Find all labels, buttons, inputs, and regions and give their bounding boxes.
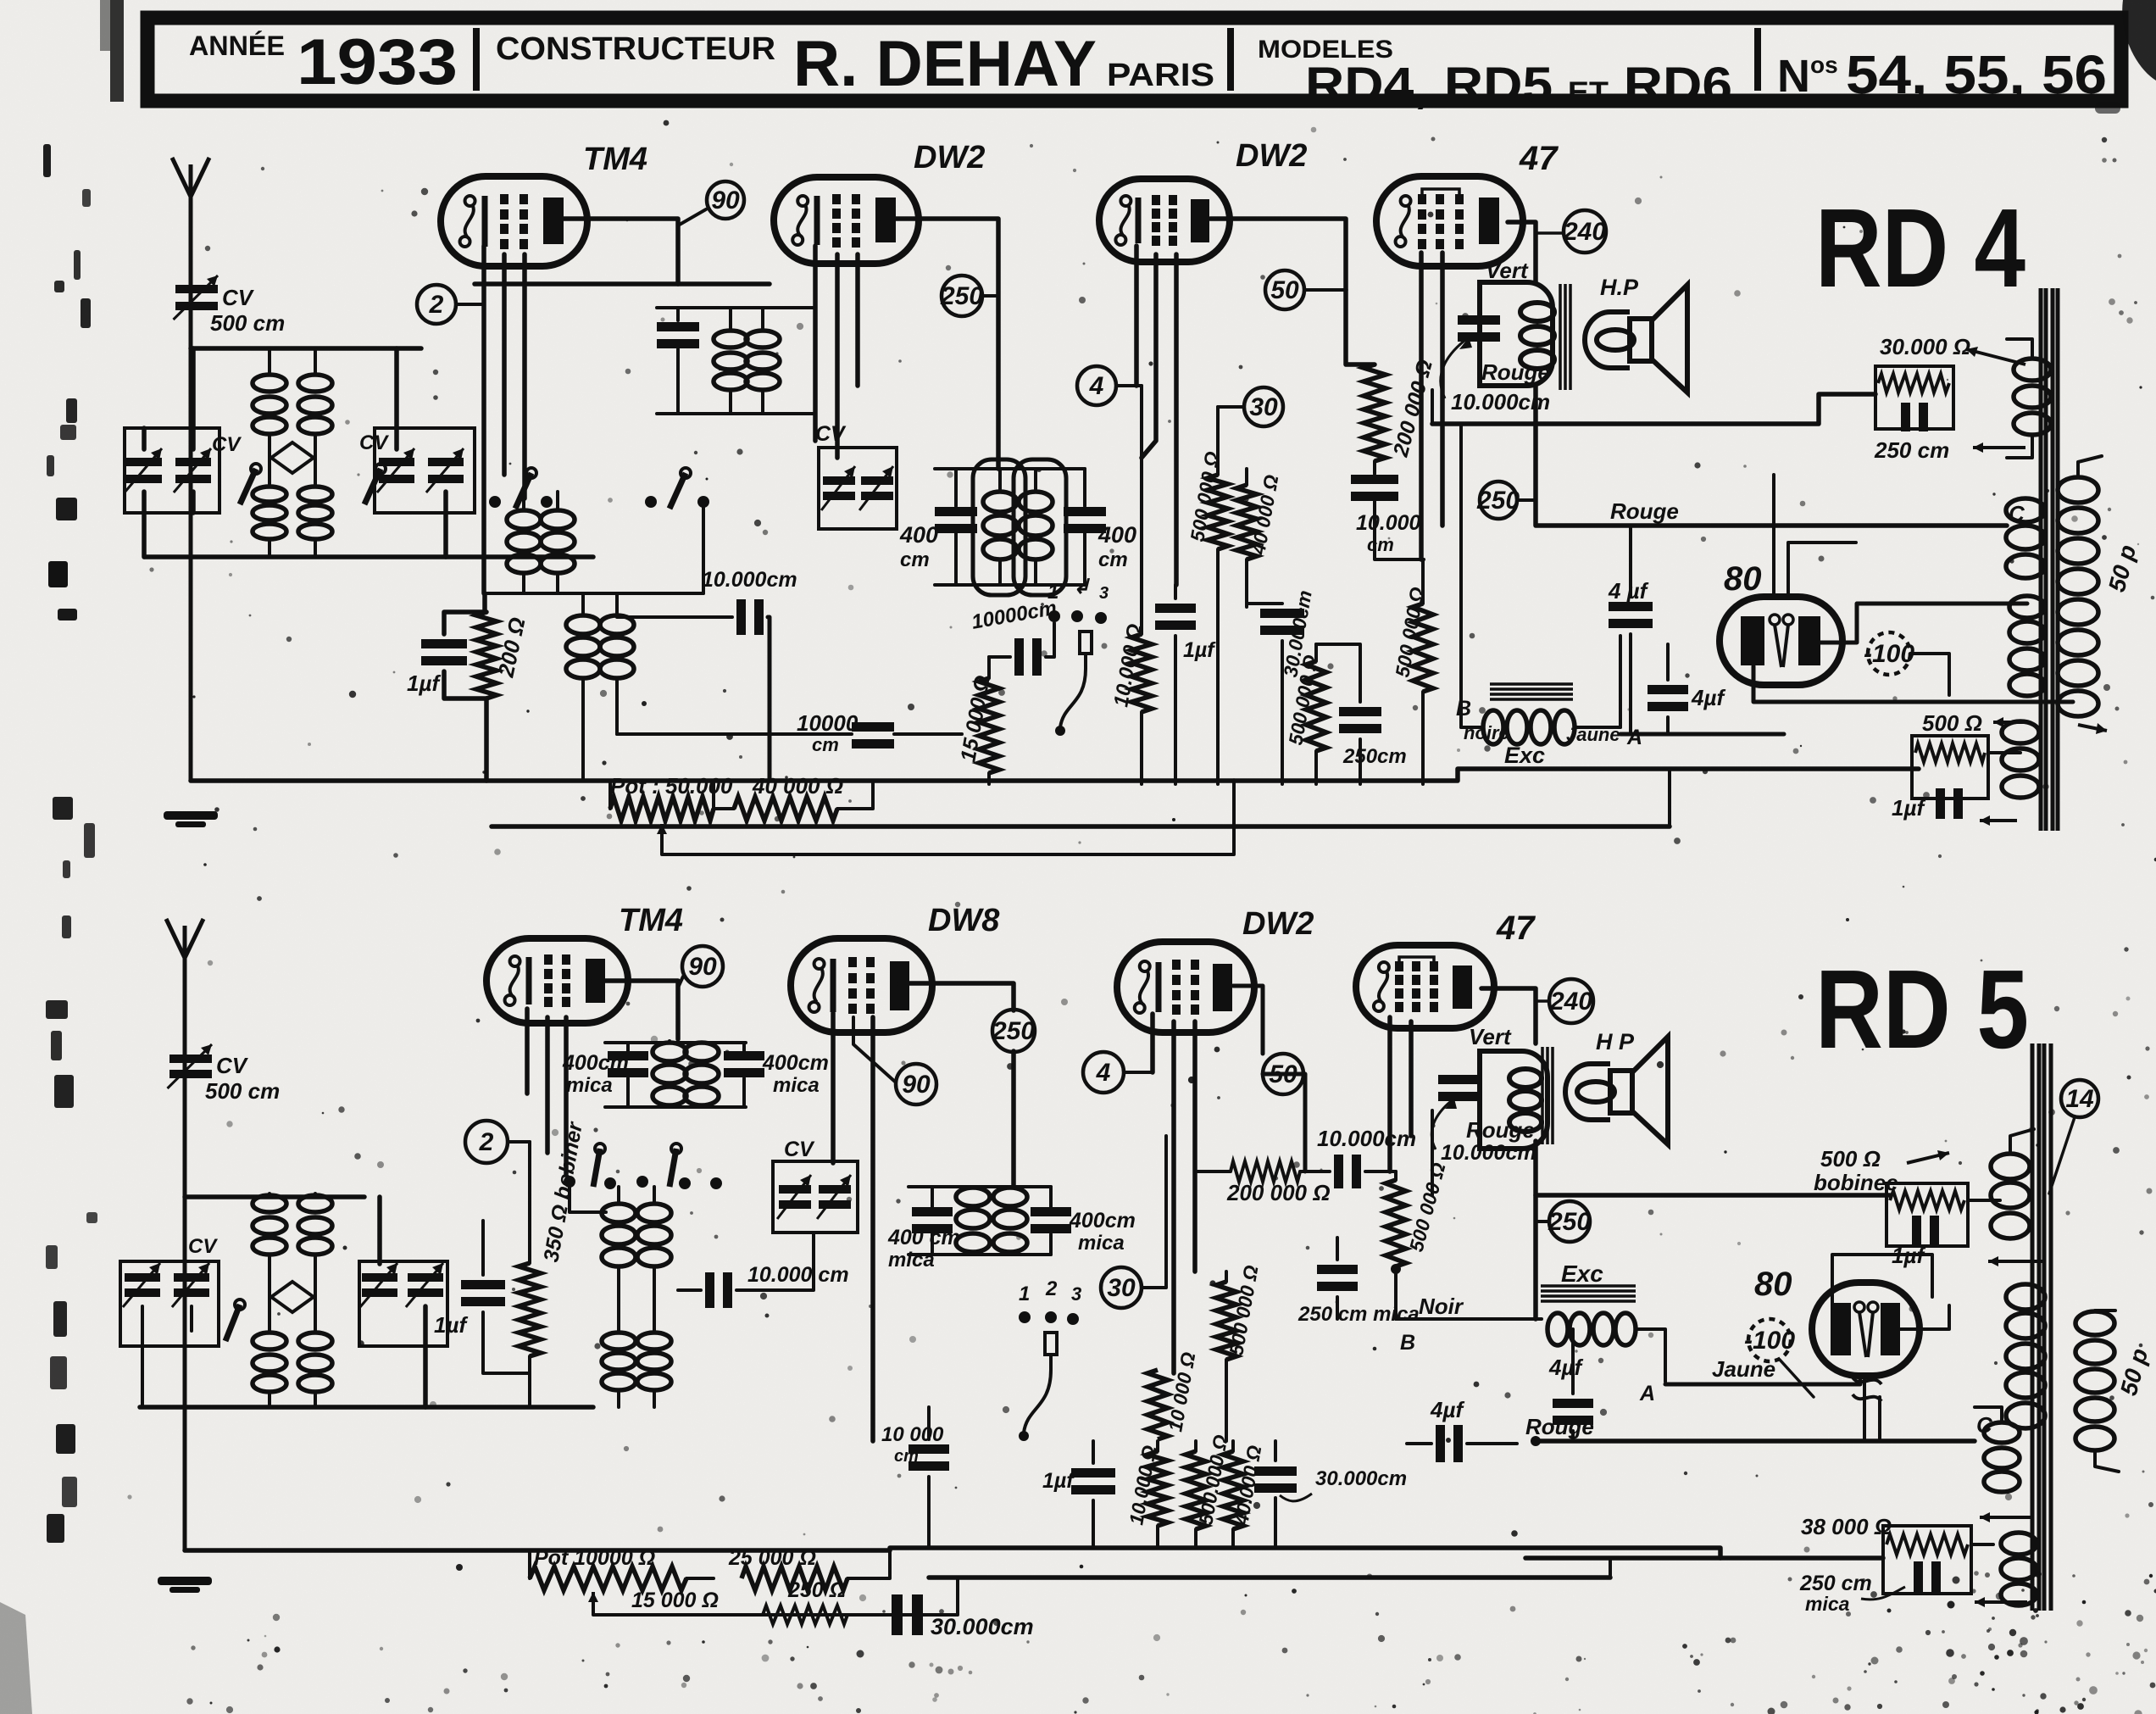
capacitor 250cm RC RD4 — [1901, 403, 1910, 431]
IF transformer 2 RD4 capR — [1064, 507, 1106, 516]
contacts 123 RD5 — [1019, 1311, 1031, 1323]
wire TM4 cathode RD4 — [481, 246, 486, 593]
arrow RC top RD4 — [1966, 349, 2025, 365]
terminal circle 30 RD4 — [1244, 387, 1283, 426]
variable capacitor gang D RD4 — [428, 458, 464, 466]
capacitor 10000cm coup RD5 — [1334, 1155, 1343, 1188]
wire DW2b leads RD4 — [1134, 246, 1139, 386]
box tuning gang left RD5 — [120, 1261, 219, 1346]
tube DW2 RD5 — [1117, 942, 1254, 1032]
wire gangC leads RD4 — [394, 348, 399, 449]
wire osc cap RD5 — [678, 1288, 701, 1292]
wire gangA leads RD4 — [142, 428, 147, 449]
capacitor 30000cm out RD5 — [892, 1594, 903, 1635]
wire 4uFa RD5 — [1571, 1329, 1575, 1394]
wire antenna top interconnect RD4 — [191, 346, 421, 351]
tube 80 RD4 — [1720, 597, 1842, 685]
tube TM4 RD5 — [486, 938, 628, 1023]
resistor 350ohm RD5 — [519, 1263, 541, 1356]
wire 500000b RD5 — [1394, 1171, 1398, 1180]
wire 4uFb RD5 — [1407, 1442, 1431, 1445]
wire det cap RD4 — [989, 655, 1010, 659]
bus B+ RD4 — [492, 824, 1670, 829]
capacitor 30000cm RD4 — [1260, 609, 1304, 618]
oscillator contacts RD5 — [564, 1176, 575, 1188]
power transformer secondary RD4 — [2058, 477, 2098, 503]
capacitor 10000cm output RD4 — [1458, 315, 1500, 325]
variable capacitor gangB RD5 — [174, 1273, 209, 1282]
wire jaune RD5 — [1665, 1380, 1860, 1384]
capacitor 10000cm bias RD4 — [852, 722, 894, 732]
variable capacitor gangD RD5 — [408, 1273, 443, 1282]
wire det RD5 — [1092, 1441, 1095, 1463]
title block frame — [147, 18, 2121, 101]
wire frontend bottom RD5 — [140, 1405, 593, 1410]
resistor 250ohm RD5 — [763, 1605, 847, 1624]
jack RD4 — [1080, 632, 1092, 654]
wire exc RD5 — [1637, 1329, 1665, 1382]
bus B+2 RD5 — [929, 1575, 1610, 1580]
arrow 38000 bot RD5 — [1975, 1600, 2027, 1604]
wire DW2a grid RD4 — [835, 254, 840, 458]
IF1 RD5 capR — [724, 1051, 764, 1060]
wire 80 filament RD5 — [1853, 1377, 1881, 1401]
power transformer W2 RD4 — [2006, 498, 2045, 522]
terminal circle 14 RD5 — [2061, 1080, 2098, 1117]
resistor 500000b RD4 — [1306, 661, 1326, 751]
power W3 C RD5 — [1984, 1422, 2020, 1443]
arrow 500 top RD5 — [1907, 1153, 1949, 1163]
IF transformer 1 RD4 coils — [714, 331, 747, 348]
box tuning gang left RD4 — [125, 428, 219, 513]
wire circle50 RD4 — [1304, 288, 1346, 292]
wire 500 RD4 — [1988, 751, 2020, 754]
antenna RD4 — [189, 170, 193, 781]
IF1 RD5 capL — [608, 1051, 648, 1060]
wire 1uF RD5 — [481, 1221, 485, 1275]
laminations output RD5 — [1541, 1047, 1544, 1144]
capacitor 1uF det RD5 — [1071, 1468, 1115, 1477]
wire 250cm RD4 — [1316, 644, 1360, 702]
capacitor 1uF RD4r — [1936, 788, 1945, 819]
wire 500000c RD4 — [1421, 559, 1425, 604]
wire Bwire RD4 — [1459, 424, 1463, 727]
resistor 10000ohm det RD4 — [1131, 634, 1152, 712]
wire 250cm RD5 — [1336, 1238, 1339, 1260]
capacitor 250cm mica RD5r — [1914, 1561, 1923, 1595]
wire -100 RD4 — [1910, 654, 1949, 695]
resistor 500ohm RD5 box — [1886, 1183, 1968, 1246]
output transformer RD4 coil — [1520, 303, 1554, 321]
IF transformer 2 RD4 coils — [983, 492, 1017, 512]
wire 30000cm RD4 — [1247, 602, 1282, 605]
wire 80 right anode RD4 — [1820, 604, 2027, 643]
speaker HP RD4 — [1585, 312, 1630, 368]
capacitor 10000cm det RD4 — [1014, 638, 1024, 676]
wire 47 grids RD4 — [1419, 253, 1424, 559]
wire screen bus RD4 — [1432, 394, 1875, 424]
switch S3 RD4 — [526, 468, 536, 478]
terminal circle 250 RD4 — [942, 275, 982, 316]
switch S1 RD5 — [235, 1299, 245, 1310]
wire coup RD5 — [1195, 1170, 1231, 1173]
wire 80 left anode RD4 — [1753, 666, 2073, 702]
power transformer core RD5 — [2031, 1043, 2035, 1611]
variable capacitor gangC RD5 — [362, 1273, 397, 1282]
wire IF1 RD4 — [676, 308, 680, 320]
wire 1uF-200 RD4 — [444, 612, 486, 634]
IF1 RD5 coils — [653, 1043, 686, 1061]
wire TM4 cathode RD5 — [525, 1009, 530, 1094]
arrow RC bot RD4 — [1973, 446, 2025, 449]
arrow 38000 top RD5 — [1980, 1516, 2034, 1519]
wire 40000 RD4 — [1245, 469, 1248, 485]
contacts 1 2 3 RD4 — [1048, 610, 1060, 622]
wire TM4 grid2 RD4 — [522, 254, 527, 498]
bus ground RD5 — [185, 1548, 890, 1553]
wire 80 top leads RD4 — [1772, 475, 1775, 597]
IF2 RD5 capR — [1031, 1207, 1071, 1216]
terminal circle 240 RD5 — [1549, 979, 1593, 1023]
oscillator coils RD5 — [602, 1204, 636, 1222]
power transformer W4 RD4 — [2002, 721, 2039, 743]
wire gang leads RD5 — [141, 1306, 144, 1407]
resistor 38000 RD5 — [1886, 1534, 1968, 1555]
wire rouge bus RD4 — [1536, 424, 2007, 526]
tube 47 RD4 — [1376, 176, 1523, 266]
wire DW8 grids RD5 — [831, 1013, 836, 1163]
capacitor 10000cm screen RD4 — [1351, 475, 1398, 484]
capacitor 10000cm output RD5 — [1438, 1075, 1481, 1084]
capacitor 250cm mica RD5 — [1317, 1265, 1358, 1274]
wire output bottom RD4 — [1431, 390, 1434, 424]
variable capacitor CV 500cm RD4 — [175, 285, 218, 293]
wire IF2 caps RD5 — [931, 1187, 934, 1207]
terminal circle 90b RD5 — [896, 1064, 936, 1105]
variable capacitor gang A RD4 — [126, 458, 162, 466]
wire DW2b anode RD4 — [1210, 219, 1346, 290]
wire W1 bottom RD4 — [2007, 437, 2032, 458]
resistor 30000 RC RD4 box — [1875, 366, 1953, 429]
resistor 200ohm RD4 — [476, 612, 497, 698]
wire IF2 caps RD4 — [954, 469, 958, 506]
wire osc cap RD4 — [617, 615, 732, 619]
wire 15000 RD4 — [987, 657, 991, 678]
tube 47 RD5 — [1356, 945, 1494, 1028]
terminal circle 2 RD4 — [417, 285, 456, 324]
tube DW2b RD4 — [1099, 179, 1230, 262]
resistor 500000c RD4 — [1413, 604, 1433, 692]
IF transformer 1 RD4 cap — [657, 322, 699, 331]
switch S4 RD5 — [671, 1144, 681, 1154]
antenna RD5 — [183, 931, 187, 1550]
terminal circle 250b RD5 — [1549, 1201, 1590, 1242]
terminal circle -100 RD4 — [1868, 632, 1910, 675]
CV trimmer RD5 box — [773, 1161, 858, 1233]
capacitor 10000cm osc RD4 — [736, 599, 746, 635]
IF2 RD5 capL — [912, 1207, 953, 1216]
capacitor 30000cm RD5 — [1254, 1466, 1297, 1476]
resistor 500000c RD5 — [1216, 1282, 1236, 1360]
wire TM4 grid1 RD4 — [502, 254, 507, 475]
speaker HP RD5 — [1565, 1064, 1610, 1120]
IF2 RD5 coils — [956, 1188, 990, 1206]
wire secondary RD5 — [2095, 1453, 2119, 1472]
wire 47 anode RD5 — [1481, 988, 1536, 1043]
wire circle4 RD4 — [1116, 384, 1142, 387]
bus B+1 RD5 — [890, 1548, 1720, 1558]
wire 47 grid RD5 — [1387, 1017, 1392, 1171]
capacitor 1uF RD5 — [461, 1280, 505, 1289]
wire circle2 RD4 — [456, 303, 484, 306]
wire noir RD5 — [1396, 1317, 1542, 1321]
variable capacitor gang C RD4 — [379, 458, 414, 466]
wire IF1 caps RD5 — [626, 1043, 630, 1051]
terminal circle 250 RD5 — [992, 1010, 1035, 1052]
power W1 RD5 — [1991, 1154, 2030, 1179]
wire DW2a anode down RD4 — [961, 733, 963, 735]
power W4 RD5 — [2001, 1533, 2037, 1555]
pot 50000 RD4 — [610, 797, 714, 821]
terminal circle 4 RD4 — [1077, 366, 1116, 405]
wire 10000det RD4 — [1140, 386, 1143, 634]
wire secondary ends RD4 — [2078, 456, 2102, 475]
antenna coil RD5 — [253, 1195, 286, 1212]
wire chain RD5 — [847, 1548, 890, 1578]
resistor 500ohm RD4 — [1915, 743, 1985, 762]
capacitor 1uF RD5r — [1912, 1216, 1921, 1246]
wire circle250b RD5 — [1533, 1141, 1538, 1319]
wire DW2a anode RD4 — [881, 219, 998, 469]
resistor 500000a RD4 — [1208, 475, 1228, 549]
wire DW8 anode RD5 — [899, 983, 1014, 1010]
oscillator coils lower RD4 — [566, 615, 600, 634]
terminal circle 2 RD5 — [465, 1121, 508, 1163]
terminal circle -100 RD5 — [1748, 1319, 1791, 1361]
capacitor 10000cm osc RD5 — [705, 1272, 714, 1308]
field coil Exc RD4 — [1490, 682, 1573, 686]
tube 80 RD5 — [1812, 1283, 1920, 1376]
tube DW8 RD5 — [791, 938, 932, 1032]
arrow 500 bot RD5 — [1988, 1260, 2042, 1263]
arrow 500 top RD4 — [1993, 721, 2025, 724]
wire TM4 anode RD5 — [593, 981, 678, 1039]
antenna coil T1 RD4 — [253, 375, 286, 392]
terminal circle 50 RD4 — [1265, 270, 1304, 309]
wire screen drop RD4 — [1346, 290, 1375, 365]
wire 240 link RD4 — [1536, 231, 1564, 235]
wire 350 RD5 — [528, 1142, 531, 1263]
switch S3 RD5 — [595, 1144, 605, 1154]
capacitor 250cm RD4 — [1339, 707, 1381, 716]
CV trimmer RD4 caps — [823, 476, 855, 485]
box tuning gang mid RD4 — [375, 428, 475, 513]
resistor 40000 RD4 — [1236, 485, 1257, 559]
power transformer core RD4 — [2039, 288, 2043, 831]
wire 200000 RD4 — [1373, 461, 1376, 474]
resistor 200000 RD4 — [1364, 365, 1386, 461]
resistor 200000 RD5 — [1231, 1161, 1300, 1182]
terminal circle 240 RD4 — [1564, 210, 1606, 253]
capacitor 10000cm det RD5 — [909, 1444, 949, 1454]
wire circle4 RD5 — [1124, 1071, 1153, 1074]
wire bias RD4 — [617, 732, 852, 736]
terminal circle 4 RD5 — [1083, 1052, 1124, 1093]
oscillator coils upper RD4 — [507, 510, 541, 529]
wire circle250r RD4 — [1517, 498, 1536, 502]
wire DW2a cathode RD4 — [813, 246, 818, 441]
terminal circle 30 RD5 — [1101, 1267, 1142, 1308]
wire 38000 RD5 — [1525, 1555, 1883, 1561]
bus mid RD4 — [1234, 769, 1919, 781]
tube TM4 RD4 — [441, 176, 587, 266]
switch S2 RD4 — [375, 464, 386, 474]
terminal circle 90 RD4 — [707, 181, 744, 219]
output transformer RD5 coil — [1509, 1069, 1542, 1088]
ground RD5 — [158, 1577, 212, 1585]
wire pot RD5 — [528, 1550, 531, 1578]
wire left col RD5 — [889, 1407, 891, 1550]
IF transformer 2 RD4 cans — [973, 459, 1025, 595]
capacitor 1uF det RD4 — [1155, 604, 1196, 613]
resistor 500000d RD5 — [1395, 1177, 1397, 1179]
wire 30000 RD5 — [847, 1613, 888, 1617]
resistor 15000 RD4 — [979, 678, 999, 773]
CV trimmer RD5 caps — [779, 1185, 811, 1194]
wire circle14 RD5 — [2049, 1117, 2075, 1194]
wire 1uF det RD4 — [1174, 585, 1177, 598]
wire jaune row RD4 — [1619, 636, 1622, 727]
capacitor 4uF a RD5 — [1553, 1399, 1593, 1408]
wire 47 anode RD4 — [1508, 222, 1536, 282]
wire circle30 RD4 — [1218, 405, 1244, 409]
resistor 10000a RD5 — [1147, 1451, 1168, 1526]
terminal circle 90 RD5 — [682, 946, 723, 987]
resistor 30000 RD4 — [1878, 374, 1949, 392]
wire 4uFb RD4 — [1666, 644, 1670, 680]
output transformer RD5 box — [1480, 1051, 1548, 1149]
capacitor 4uF b RD5 — [1436, 1425, 1445, 1462]
CV trimmer RD4 box — [819, 448, 897, 529]
wire pot ends RD4 — [608, 781, 612, 809]
tube80 RD5 anode wires — [1832, 1255, 1932, 1305]
IF transformer 2 RD4 capL — [935, 507, 977, 516]
terminal circle 50 RD5 — [1263, 1054, 1303, 1094]
wire circle2 RD5 — [508, 1140, 530, 1144]
variable capacitor gang B RD4 — [175, 458, 211, 466]
wire circle30 RD5 — [1142, 1136, 1166, 1288]
capacitor 4uF b RD4 — [1648, 685, 1688, 694]
resistor 40000 RD5 — [1223, 1451, 1243, 1529]
power transformer W1 RD4 — [2014, 359, 2051, 381]
wire gangC leads RD5 — [377, 1197, 382, 1264]
bus ground RD4 — [191, 778, 1234, 783]
pot 10000 RD5 — [530, 1567, 686, 1590]
wire DW2 leads RD5 — [1150, 1014, 1155, 1072]
switch S1 RD4 — [251, 464, 261, 474]
wire screen long RD5 — [1536, 1193, 1890, 1198]
terminal circle 250 right RD4 — [1480, 481, 1517, 519]
wire 40000 pot RD4 — [714, 807, 734, 810]
capacitor 4uF a RD4 — [1609, 602, 1653, 611]
field coil Exc RD5 — [1541, 1284, 1636, 1288]
wire osc bottom RD4 — [486, 592, 703, 595]
resistor 40000 pot RD4 — [734, 797, 837, 821]
resistor 500000b RD5 — [1386, 1180, 1406, 1266]
diamond connector RD4 — [271, 442, 314, 473]
wire frontend bottom RD4 — [145, 554, 593, 559]
wire 500000c RD5 — [1225, 1272, 1228, 1282]
resistor 25000 RD5 — [742, 1567, 847, 1590]
wire 500000a RD4 — [1216, 407, 1220, 475]
output transformer RD4 box — [1480, 282, 1553, 386]
power W2 RD5 — [2006, 1284, 2045, 1310]
jack RD5 — [1045, 1333, 1057, 1355]
resistor 500ohm RD4 box — [1912, 736, 1988, 799]
wire to circle90 RD4 — [678, 209, 706, 225]
variable capacitor gangA RD5 — [125, 1273, 160, 1282]
power secondary RD5 — [2075, 1311, 2114, 1335]
resistor 38000 RD5 box — [1883, 1526, 1971, 1594]
ground RD4 — [164, 811, 218, 820]
resistor 10000b RD5 — [1147, 1370, 1168, 1439]
laminations output RD4 — [1559, 284, 1562, 390]
wire frontend top RD5 — [185, 1194, 364, 1199]
capacitor 1uF RD4 — [421, 639, 467, 648]
power transformer W3 RD4 — [2009, 596, 2045, 618]
wire 500000b RD4 — [1314, 644, 1318, 661]
resistor 500000a RD5 — [1186, 1451, 1206, 1529]
box tuning gang mid RD5 — [359, 1261, 447, 1346]
resistor 500ohm RD5 — [1890, 1191, 1964, 1210]
bus under TM4 RD4 — [475, 281, 770, 287]
tube DW2a RD4 — [774, 177, 919, 264]
wire -100 RD5 — [1780, 1360, 1814, 1397]
variable capacitor CV 500cm RD5 — [169, 1055, 212, 1063]
wire 4uFa RD4 — [1629, 526, 1632, 597]
wire rouge RD5 — [1536, 1439, 1975, 1444]
switch S4 RD4 — [681, 468, 691, 478]
wire TM4 anode RD4 — [549, 219, 678, 284]
diamond connector RD5 — [271, 1282, 314, 1312]
wire 240 link RD5 — [1536, 999, 1549, 1003]
wire 47 screen RD5 — [1431, 1110, 1434, 1195]
